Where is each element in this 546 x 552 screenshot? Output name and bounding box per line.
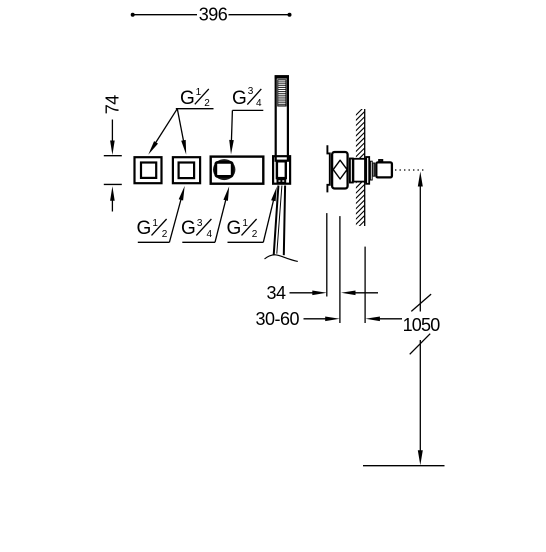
knob tab <box>379 160 382 162</box>
shower holder cup <box>277 161 286 178</box>
label G3/4 top <box>232 86 263 110</box>
hand shower spray plate <box>278 80 286 106</box>
svg-text:G: G <box>232 88 247 109</box>
svg-text:34: 34 <box>267 283 287 303</box>
label G1/2 top <box>176 87 214 109</box>
dimension 34 right arrow <box>341 291 356 296</box>
valve rough body <box>332 152 348 189</box>
wall front edge line <box>364 109 366 226</box>
svg-text:G: G <box>227 218 242 239</box>
stem step 2 <box>373 163 375 176</box>
square outlet 1 inner square <box>141 163 156 178</box>
handle knob (side) <box>376 162 392 177</box>
dimension 34 left arrow <box>290 292 319 294</box>
svg-text:74: 74 <box>102 95 122 115</box>
svg-text:1: 1 <box>152 218 158 229</box>
mixer handle square <box>216 162 232 176</box>
dimension 1050 upper break slash <box>411 294 431 311</box>
dimension 1050 lower break slash <box>410 334 431 355</box>
dimension 74 upper arrow <box>111 120 113 146</box>
svg-text:396: 396 <box>199 4 228 24</box>
valve mounting clip <box>327 145 329 192</box>
escutcheon plate (side) <box>366 157 369 184</box>
dimension 1050 vertical line lower segment <box>419 340 421 452</box>
label G3/4 bottom <box>181 218 215 242</box>
dimension 396 end dot left <box>131 13 135 17</box>
dotted reference line <box>395 169 424 171</box>
label G1/2 bottom-right <box>227 218 264 242</box>
svg-text:1: 1 <box>196 87 202 98</box>
shower hose middle line <box>277 186 282 254</box>
dimension 1050 top arrow <box>418 172 423 187</box>
dimension 30-60 left arrow <box>304 318 332 320</box>
svg-text:3: 3 <box>197 218 203 229</box>
dimension 1050 vertical line upper segment <box>419 183 421 312</box>
leader from G1/2 top to square outlet 2 <box>177 109 184 146</box>
svg-text:3: 3 <box>248 86 254 97</box>
mixer plate (wide rectangle) <box>211 157 264 184</box>
square outlet 2 outer plate <box>173 157 200 183</box>
extension line C (wall face) <box>364 247 366 323</box>
dimension 1050 bottom arrow <box>418 450 423 465</box>
shower hose right line <box>284 186 285 256</box>
shower hose left line <box>274 186 279 256</box>
valve body diamond <box>333 160 347 179</box>
valve mounting ring <box>350 159 353 183</box>
svg-text:G: G <box>181 218 196 239</box>
dimension 74 lower arrow <box>110 186 115 201</box>
dimension 74 lower tick <box>104 183 122 185</box>
extension line A (valve back) <box>326 213 328 296</box>
shower holder cup dark band <box>277 179 287 183</box>
svg-text:30-60: 30-60 <box>256 309 300 329</box>
hand shower wand top cap <box>275 75 289 78</box>
shower hose break squiggle <box>265 255 298 261</box>
svg-text:1050: 1050 <box>403 315 441 335</box>
svg-text:2: 2 <box>252 229 258 240</box>
mixer handle circle <box>213 159 235 180</box>
extension line B (valve front) <box>339 216 341 323</box>
dimension 396 end dot right <box>288 13 292 17</box>
valve sleeve through wall <box>353 159 365 182</box>
svg-text:G: G <box>137 218 152 239</box>
dimension 396 horizontal line <box>133 14 290 16</box>
svg-text:1: 1 <box>242 218 248 229</box>
label G1/2 bottom-left <box>137 218 170 242</box>
dimension 30-60 right arrow <box>365 317 380 322</box>
svg-text:2: 2 <box>204 98 210 109</box>
leader from G1/2 bottom to square outlet 2 <box>169 192 183 242</box>
svg-text:2: 2 <box>162 229 168 240</box>
leader from G1/2 top to square outlet 1 <box>151 109 177 150</box>
floor line <box>363 465 445 467</box>
wall section hatching <box>354 104 367 237</box>
square outlet 2 inner square <box>179 163 195 179</box>
svg-text:G: G <box>180 88 195 109</box>
stem step 1 <box>370 161 372 180</box>
leader from G1/2 bottom to hand shower hose <box>263 193 275 243</box>
svg-text:4: 4 <box>207 229 213 240</box>
leader from G3/4 bottom to mixer handle <box>215 192 228 242</box>
svg-text:4: 4 <box>256 98 262 109</box>
hand shower wand body <box>276 76 288 160</box>
dimension 74 upper tick <box>104 155 122 157</box>
square outlet 1 outer plate <box>135 157 162 183</box>
shower holder bracket <box>273 156 290 184</box>
leader from G3/4 top to mixer plate <box>231 110 232 145</box>
